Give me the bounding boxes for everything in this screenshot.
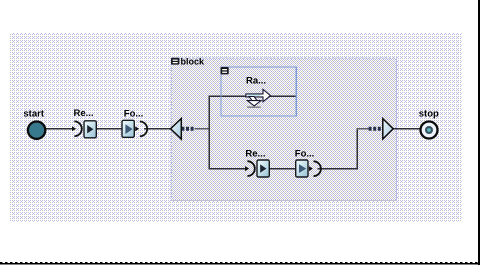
wire: bottom path segment 1 xyxy=(209,168,245,170)
wire: start to Restricted xyxy=(46,128,72,130)
upper Re element (arc + box) xyxy=(72,121,96,138)
output port hatch dashes xyxy=(369,127,383,131)
wire: split vertical xyxy=(208,95,210,169)
input port hatch dashes xyxy=(181,127,194,131)
wire: top path into Ra box xyxy=(209,95,296,97)
wire: bottom path segment 2 xyxy=(269,168,296,170)
lower Re element (arc + box) xyxy=(245,160,269,177)
svg-text:Ra...: Ra... xyxy=(246,75,266,86)
block body (expanded sub-model area) xyxy=(172,58,397,201)
svg-text:block: block xyxy=(181,57,206,67)
svg-text:Re...: Re... xyxy=(245,149,265,160)
wire: merge to output port xyxy=(357,128,370,130)
wire: merge vertical xyxy=(356,128,358,170)
svg-text:start: start xyxy=(23,108,44,119)
wire: Re box to Fo box xyxy=(96,128,122,130)
svg-text:Re...: Re... xyxy=(74,108,94,119)
upper Fo element (box + arc) xyxy=(122,120,147,137)
svg-text:Fo...: Fo... xyxy=(124,109,144,120)
page right border xyxy=(478,0,480,265)
start node xyxy=(28,122,45,139)
Ra icon: hollow right arrow with drop-down arrow xyxy=(246,89,271,108)
block collapse icon xyxy=(171,58,179,65)
canvas grid background xyxy=(10,33,462,222)
Ra sub-block rectangle xyxy=(221,67,296,116)
stop node xyxy=(421,122,438,139)
wire: output port to stop xyxy=(393,128,421,130)
wire: bottom path segment 3 xyxy=(317,168,358,170)
wire: input port to split junction xyxy=(195,128,210,130)
svg-text:stop: stop xyxy=(419,109,439,120)
svg-text:Fo...: Fo... xyxy=(295,149,315,160)
input port triangle (points left) xyxy=(171,119,182,140)
wire: Fo arc to block input port xyxy=(144,128,171,130)
Ra collapse icon xyxy=(221,67,229,74)
lower Fo element (box + arc) xyxy=(296,160,321,177)
page bottom perforated border xyxy=(0,263,478,265)
output port triangle (points right) xyxy=(383,119,393,139)
